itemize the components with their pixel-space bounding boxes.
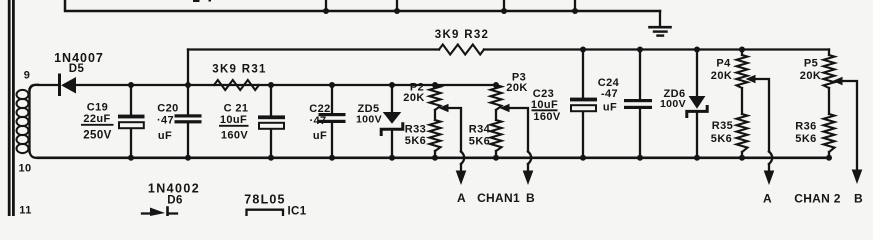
svg-text:78L05: 78L05 <box>244 193 285 207</box>
svg-text:R35: R35 <box>712 120 733 132</box>
svg-text:-47: -47 <box>601 88 618 100</box>
svg-text:C 21: C 21 <box>224 103 249 115</box>
svg-text:CHAN 2: CHAN 2 <box>794 192 840 206</box>
svg-text:5K6: 5K6 <box>405 135 426 147</box>
svg-text:160V: 160V <box>221 130 249 142</box>
svg-text:P5: P5 <box>804 58 818 70</box>
svg-text:·47: ·47 <box>157 115 174 127</box>
svg-text:R34: R34 <box>469 124 491 136</box>
svg-text:250V: 250V <box>83 130 111 142</box>
svg-text:C20: C20 <box>157 103 178 115</box>
svg-text:10uF: 10uF <box>531 99 558 111</box>
svg-text:A: A <box>457 191 466 205</box>
svg-text:C22: C22 <box>309 103 330 115</box>
svg-text:5K6: 5K6 <box>711 133 732 145</box>
svg-text:uF: uF <box>313 130 327 142</box>
svg-text:100V: 100V <box>660 98 686 110</box>
svg-text:3K9 R31: 3K9 R31 <box>212 64 267 76</box>
svg-text:9: 9 <box>24 70 31 82</box>
svg-text:D5: D5 <box>69 63 85 75</box>
svg-text:uF: uF <box>603 102 617 114</box>
svg-text:20K: 20K <box>800 70 821 82</box>
svg-text:CHAN1: CHAN1 <box>477 191 520 205</box>
svg-text:P4: P4 <box>716 58 731 70</box>
svg-text:5K6: 5K6 <box>469 136 490 148</box>
svg-text:B: B <box>526 191 535 205</box>
svg-text:10uF: 10uF <box>220 114 247 126</box>
svg-text:R36: R36 <box>795 121 816 133</box>
svg-text:D6: D6 <box>167 195 183 207</box>
svg-text:10: 10 <box>18 163 31 175</box>
svg-text:100V: 100V <box>356 114 382 126</box>
svg-text:22uF: 22uF <box>83 113 110 125</box>
svg-text:1N4002: 1N4002 <box>148 182 200 196</box>
svg-text:uF: uF <box>158 130 172 142</box>
svg-text:5K6: 5K6 <box>795 133 816 145</box>
svg-text:R33: R33 <box>405 124 426 136</box>
svg-text:A: A <box>763 192 772 206</box>
svg-text:20K: 20K <box>506 82 527 94</box>
svg-text:IC1: IC1 <box>287 206 306 217</box>
svg-text:160V: 160V <box>533 111 561 123</box>
svg-text:20K: 20K <box>403 92 424 104</box>
svg-text:B: B <box>854 192 863 206</box>
svg-text:20K: 20K <box>711 70 732 82</box>
svg-text:3K9 R32: 3K9 R32 <box>435 29 490 41</box>
svg-text:11: 11 <box>19 205 31 217</box>
svg-text:C19: C19 <box>87 102 108 114</box>
svg-text:·47: ·47 <box>309 115 326 127</box>
